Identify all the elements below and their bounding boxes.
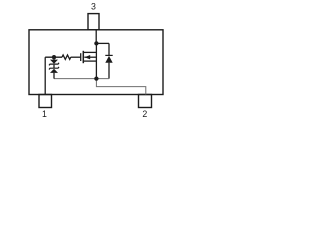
svg-text:2: 2 xyxy=(142,109,147,119)
svg-text:1: 1 xyxy=(42,109,47,119)
svg-text:3: 3 xyxy=(91,1,96,11)
